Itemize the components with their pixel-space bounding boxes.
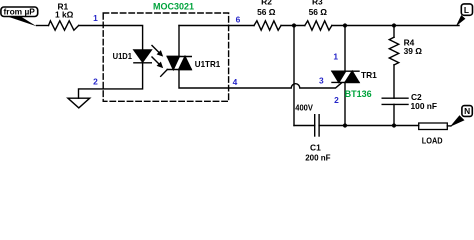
svg-text:U1D1: U1D1 xyxy=(113,51,133,61)
svg-text:N: N xyxy=(464,106,470,116)
photo-triac U1TR1 gate stub xyxy=(161,70,168,77)
triac TR1 main lead top xyxy=(344,26,346,72)
wire: snubber 400V vertical drop xyxy=(293,26,295,126)
wire: C1 to load rail xyxy=(319,125,419,127)
triac TR1 main lead bottom xyxy=(344,82,346,125)
LED U1D1 diode triangle xyxy=(134,50,151,62)
from uP callout box xyxy=(1,7,38,17)
svg-text:R2: R2 xyxy=(261,0,272,7)
photo-triac U1TR1 bottom rail xyxy=(167,69,191,71)
triac TR1 bottom rail xyxy=(332,81,359,83)
svg-text:LOAD: LOAD xyxy=(422,135,443,145)
svg-text:4: 4 xyxy=(233,77,238,87)
wire: photo-triac U1TR1 lead to pin 6 xyxy=(178,26,180,57)
wire: from uP callout to R1 and into MOC pin 1 xyxy=(37,25,49,27)
wire: pin 2 from LED cathode to ground xyxy=(79,63,143,98)
capacitor C1 right plate xyxy=(318,115,320,136)
wire: R1 to MOC pin 1, down to LED anode xyxy=(79,26,143,51)
wire: R4 to C2 xyxy=(393,65,395,98)
terminal L box xyxy=(461,4,472,15)
svg-text:56 Ω: 56 Ω xyxy=(309,7,328,17)
svg-text:100 nF: 100 nF xyxy=(411,101,438,111)
LED U1D1 cathode bar xyxy=(134,62,151,64)
svg-text:200 nF: 200 nF xyxy=(305,153,330,162)
svg-text:2: 2 xyxy=(334,95,339,105)
svg-text:3: 3 xyxy=(319,75,324,85)
ground symbol xyxy=(68,98,90,108)
light arrow 2 xyxy=(152,57,159,64)
svg-text:400V: 400V xyxy=(295,102,313,112)
junction node dots xyxy=(292,23,296,27)
svg-text:BT136: BT136 xyxy=(345,89,372,99)
svg-text:1 kΩ: 1 kΩ xyxy=(55,9,74,19)
svg-text:from µP: from µP xyxy=(4,7,36,17)
triac TR1 left triangle xyxy=(332,71,346,82)
from uP callout tail xyxy=(6,16,37,26)
svg-text:39 Ω: 39 Ω xyxy=(404,46,423,56)
svg-text:MOC3021: MOC3021 xyxy=(153,2,194,12)
svg-text:1: 1 xyxy=(93,13,98,23)
svg-text:2: 2 xyxy=(93,76,98,86)
resistor R4 branch lead xyxy=(393,26,395,38)
resistor R3 xyxy=(305,21,332,30)
MOC3021 dashed package box xyxy=(103,13,228,101)
terminal N box xyxy=(462,106,472,117)
svg-text:R3: R3 xyxy=(312,0,323,7)
wire: LOAD to N tail xyxy=(447,125,451,127)
wire: R2 to R3 with node xyxy=(281,25,305,27)
wire: C2 to bottom rail xyxy=(393,104,395,125)
terminal N tail xyxy=(450,115,465,127)
svg-text:6: 6 xyxy=(236,14,241,24)
capacitor C2 bottom plate xyxy=(382,103,408,105)
triac TR1 top rail xyxy=(332,70,359,72)
resistor R4 xyxy=(389,37,398,65)
light arrow 1 xyxy=(152,46,159,53)
wire: bottom rail left segment to C1 xyxy=(294,125,315,127)
wire: pin 4 from photo-triac, hop over snubber line, to TR1 gate xyxy=(179,70,342,89)
resistor R1 xyxy=(49,21,79,30)
wire: pin 6 out of MOC to R2 xyxy=(179,25,254,27)
resistor R2 xyxy=(254,21,281,30)
svg-text:C1: C1 xyxy=(310,142,321,152)
svg-text:TR1: TR1 xyxy=(361,70,377,80)
svg-text:1: 1 xyxy=(333,52,338,62)
svg-text:56 Ω: 56 Ω xyxy=(257,7,276,17)
triac TR1 right triangle xyxy=(345,71,359,82)
photo-triac U1TR1 right triangle xyxy=(179,57,192,70)
svg-text:L: L xyxy=(464,5,469,15)
LOAD box xyxy=(419,123,448,130)
photo-triac U1TR1 left triangle xyxy=(167,57,179,70)
photo-triac U1TR1 top rail xyxy=(167,56,191,58)
svg-text:U1TR1: U1TR1 xyxy=(195,59,221,69)
terminal L tail xyxy=(456,15,466,26)
capacitor C2 top plate xyxy=(382,97,408,99)
wire: R3 to L terminal along top xyxy=(332,25,459,27)
capacitor C1 left plate xyxy=(314,115,316,136)
